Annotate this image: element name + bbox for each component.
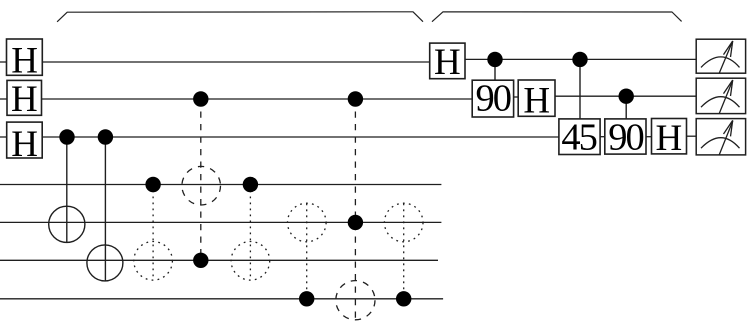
- svg-text:90: 90: [608, 117, 643, 159]
- svg-text:H: H: [11, 40, 38, 81]
- svg-text:H: H: [656, 118, 683, 159]
- svg-text:H: H: [11, 124, 38, 165]
- svg-text:H: H: [523, 81, 550, 122]
- svg-text:H: H: [434, 42, 461, 83]
- svg-text:90: 90: [476, 78, 511, 120]
- svg-text:H: H: [11, 79, 38, 120]
- svg-text:45: 45: [561, 117, 596, 159]
